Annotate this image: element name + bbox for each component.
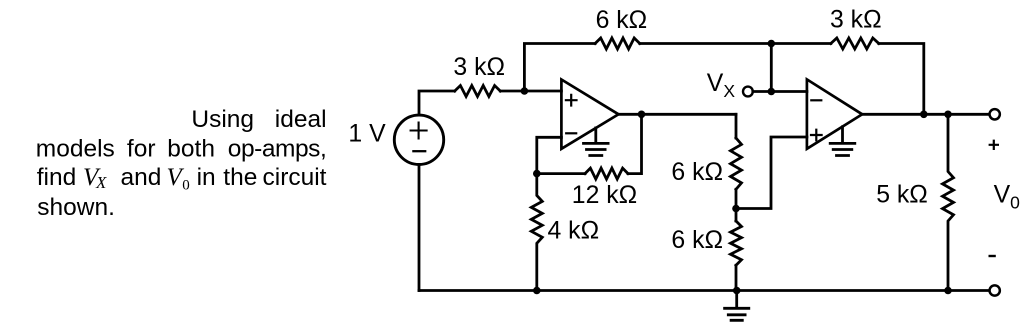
resistor R 12k <box>585 168 628 179</box>
junction dot Vx node <box>768 88 776 96</box>
voltage source V1 minus <box>413 150 425 152</box>
voltage source V1 plus <box>411 123 427 139</box>
wire 12k up to op-amp U1 output node <box>628 114 642 173</box>
wire source bottom lead to rail <box>418 165 421 291</box>
junction dot op-amp U1 output <box>638 111 646 119</box>
svg-text:3 kΩ: 3 kΩ <box>453 54 505 81</box>
label output plus <box>989 140 999 150</box>
junction dot ground rail <box>733 287 741 295</box>
svg-text:in: in <box>197 164 216 191</box>
junction dot U2 output feedback <box>920 111 928 119</box>
ground at op-amp U2 <box>830 127 855 156</box>
op-amp U1 minus label <box>566 132 576 134</box>
wire 6k lower to ground rail <box>735 265 738 290</box>
resistor R 4k <box>531 174 542 291</box>
svg-text:12 kΩ: 12 kΩ <box>572 182 637 209</box>
svg-text:models: models <box>36 136 115 163</box>
svg-text:6 kΩ: 6 kΩ <box>671 159 723 186</box>
problem statement text <box>36 106 327 221</box>
wire down to 6k upper <box>735 114 738 138</box>
op-amp U2 plus label <box>811 130 822 141</box>
terminal output bottom open circle <box>990 285 1000 295</box>
wire Vx to op-amp U2 inverting input <box>753 90 807 93</box>
wire op-amp U1 output <box>619 113 737 116</box>
label output minus <box>989 255 996 257</box>
node A junction dot <box>521 87 529 95</box>
op-amp U1 triangle <box>561 80 618 149</box>
svg-text:VX: VX <box>707 70 736 101</box>
wire bottom ground rail <box>419 289 989 292</box>
wire from 3k down to op-amp U2 output <box>879 44 924 115</box>
svg-text:and: and <box>121 164 162 191</box>
junction dot 4k bottom rail <box>533 287 541 295</box>
junction dot 5k top <box>944 111 952 119</box>
svg-text:shown.: shown. <box>37 194 115 221</box>
svg-text:for: for <box>127 136 156 163</box>
voltage source V1 circle <box>394 115 443 164</box>
wire top horizontal from node A to top-right corner <box>524 44 595 92</box>
wire mid node to op-amp U2 noninverting input <box>736 137 807 209</box>
resistor R 6k top <box>595 38 640 49</box>
wire source top lead <box>419 91 455 115</box>
terminal Vx open circle <box>743 87 753 97</box>
wire op-amp U1 inverting input to feedback node <box>537 137 562 173</box>
junction dot feedback node <box>533 170 541 178</box>
svg-text:4 kΩ: 4 kΩ <box>548 218 600 245</box>
op-amp U2 minus label <box>811 99 821 101</box>
resistor R 6k lower <box>731 221 742 265</box>
resistor R 6k upper <box>731 138 742 189</box>
svg-text:V0: V0 <box>994 181 1021 212</box>
wire top mid <box>640 42 772 45</box>
op-amp U2 triangle <box>807 79 862 148</box>
junction dot 5k bottom rail <box>944 287 952 295</box>
svg-text:6 kΩ: 6 kΩ <box>596 7 648 34</box>
junction dot top wire <box>768 40 776 48</box>
svg-text:0: 0 <box>182 177 190 193</box>
wire top right segment to 3k <box>771 42 831 45</box>
terminal output top open circle <box>990 109 1000 119</box>
wire op-amp U2 output <box>862 113 989 116</box>
resistor R 5k <box>943 114 954 290</box>
svg-text:ideal: ideal <box>275 106 327 133</box>
svg-text:the: the <box>223 164 257 191</box>
resistor R 3k feedback right <box>831 38 879 49</box>
svg-text:both: both <box>167 136 215 163</box>
svg-text:3 kΩ: 3 kΩ <box>830 7 882 34</box>
svg-text:6 kΩ: 6 kΩ <box>671 227 723 254</box>
resistor R 3k input <box>455 86 501 97</box>
svg-text:find: find <box>37 164 77 191</box>
ground at bottom rail <box>725 291 749 321</box>
svg-text:5 kΩ: 5 kΩ <box>876 181 928 208</box>
svg-text:op-amps,: op-amps, <box>228 136 327 163</box>
svg-text:X: X <box>95 173 107 192</box>
svg-text:1 V: 1 V <box>348 121 386 148</box>
svg-text:circuit: circuit <box>263 164 327 191</box>
ground at op-amp U1 <box>584 128 609 156</box>
svg-text:Using: Using <box>191 106 254 133</box>
junction dot between 6k resistors <box>732 205 740 213</box>
wire 3k to op-amp U1 noninverting input <box>500 90 561 93</box>
wire feedback node to 12k <box>537 172 585 175</box>
wire vertical from top node down to Vx node <box>770 44 773 92</box>
op-amp U1 plus label <box>566 95 577 106</box>
wire 6k upper to mid node <box>735 189 738 221</box>
